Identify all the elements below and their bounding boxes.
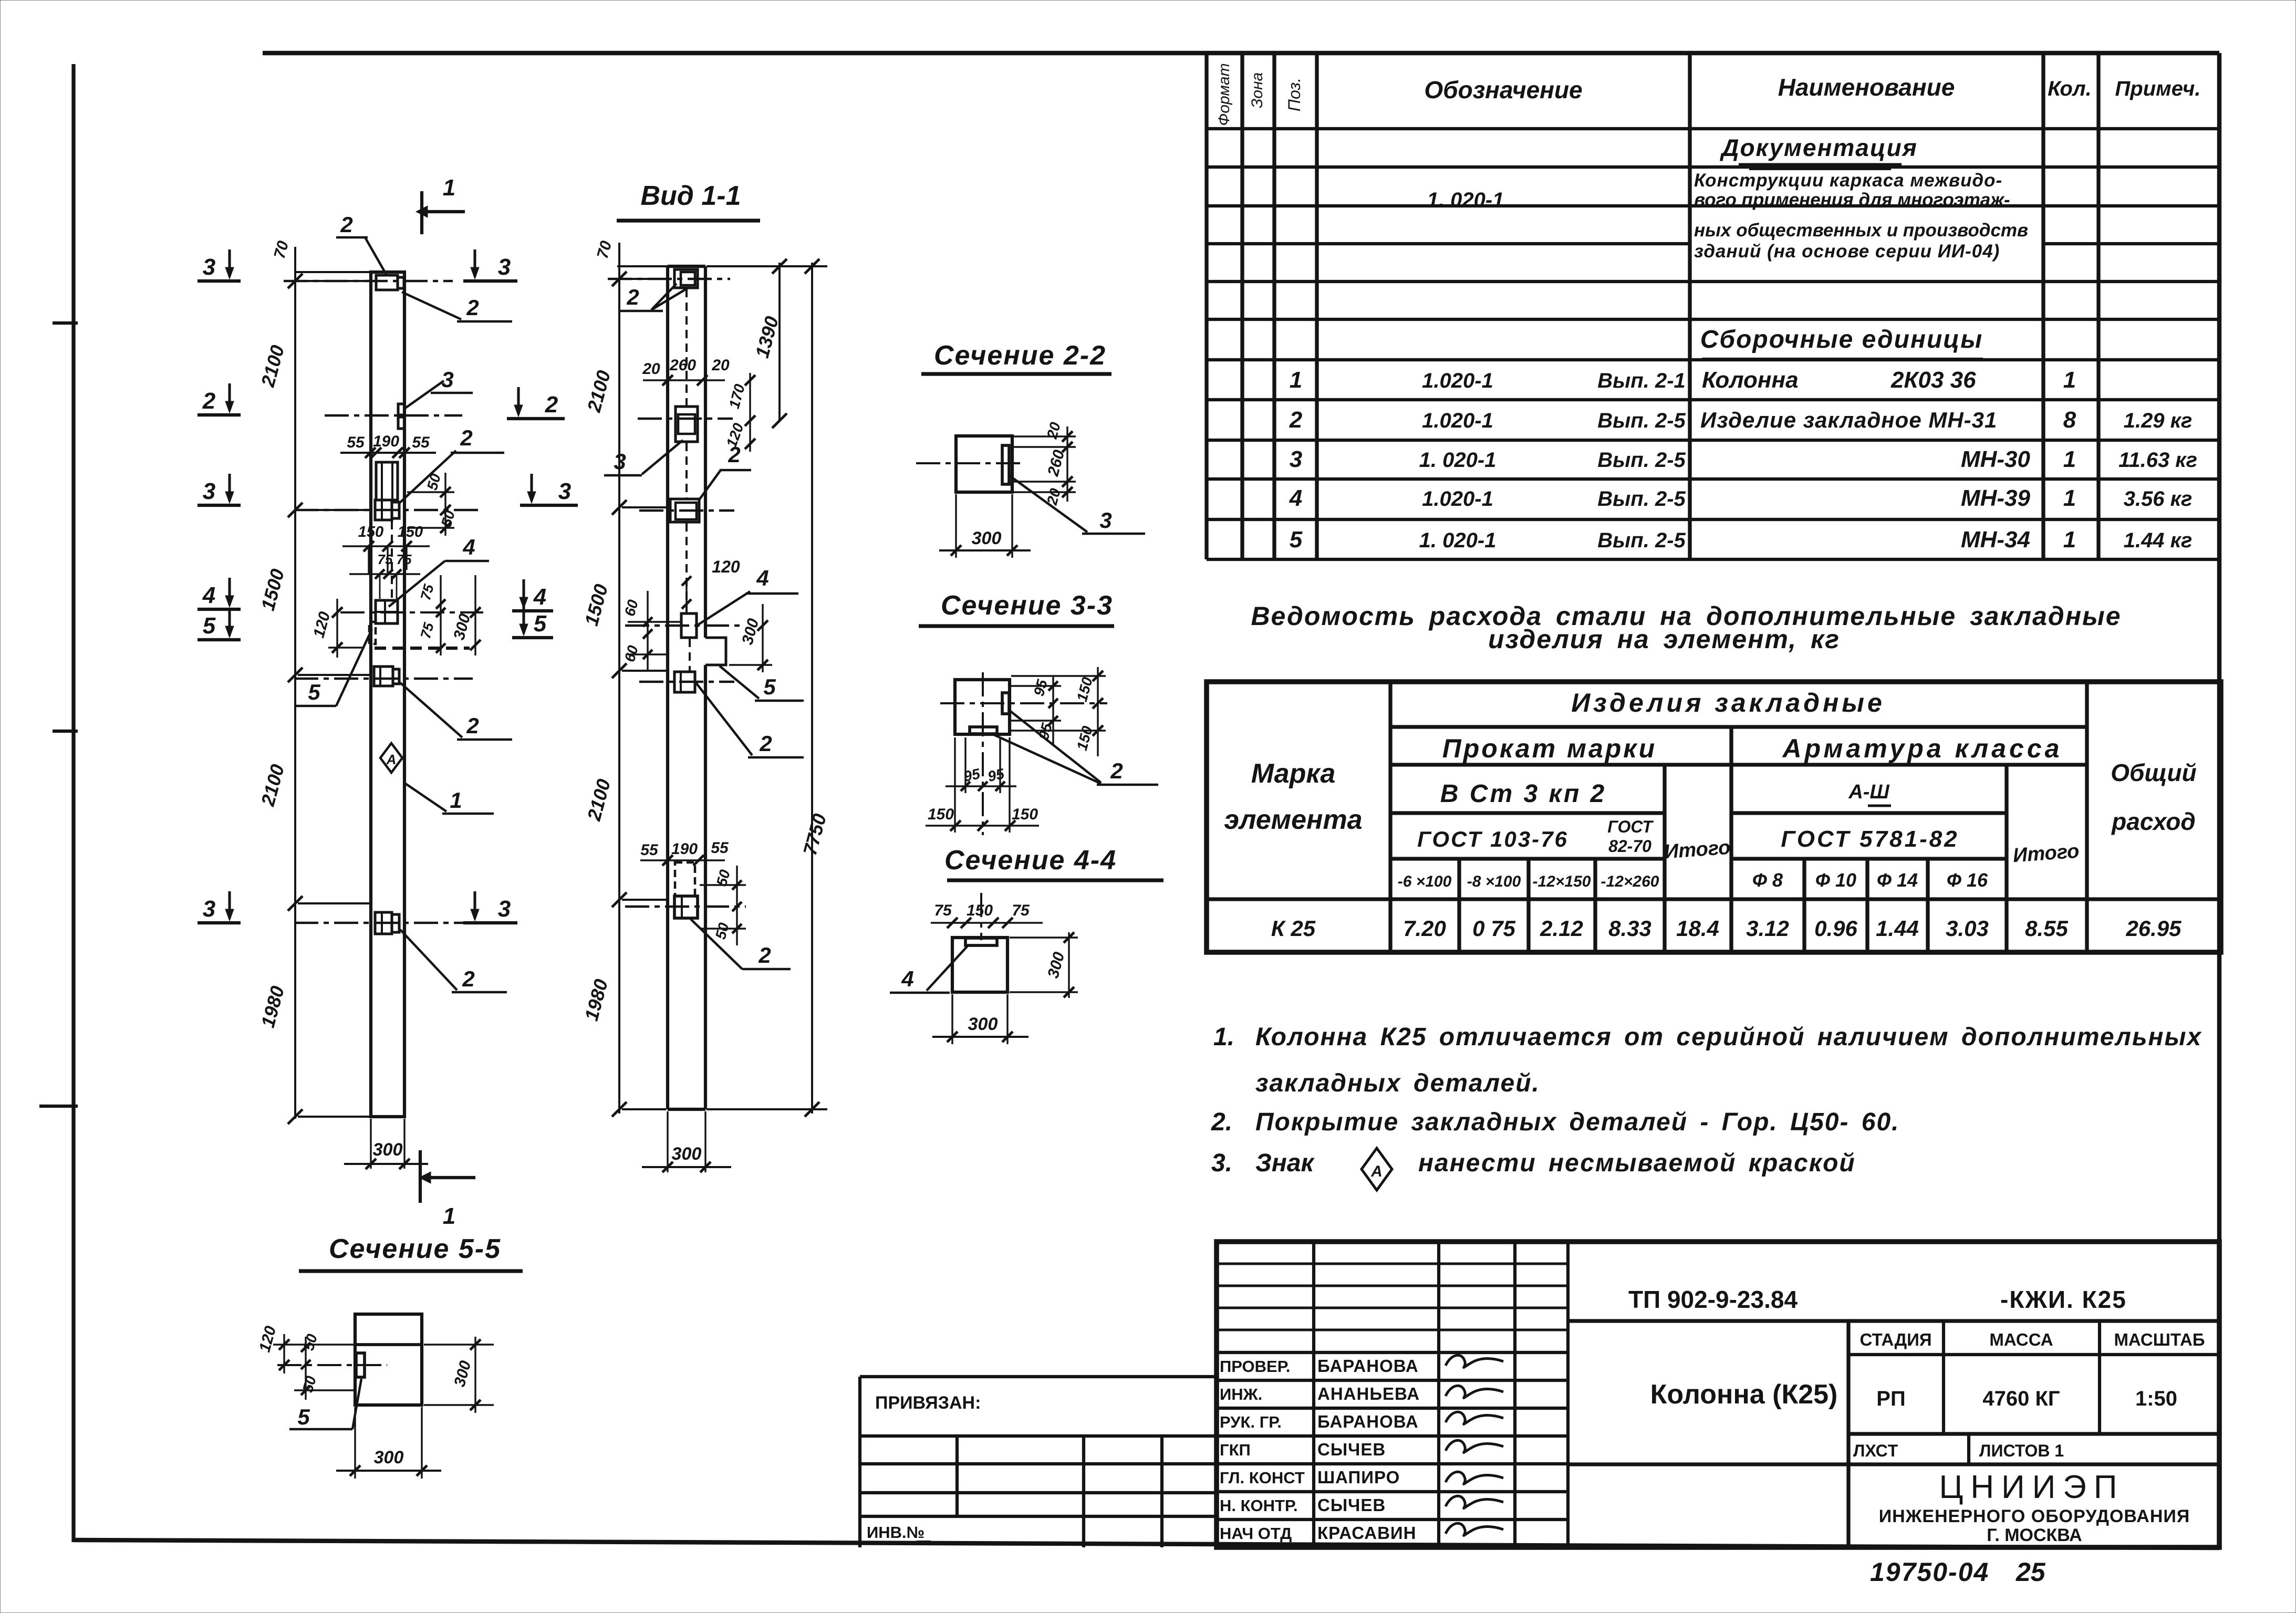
svg-text:0.96: 0.96 xyxy=(1814,916,1857,941)
svg-text:2: 2 xyxy=(466,295,479,320)
svg-text:1: 1 xyxy=(443,175,455,201)
svg-text:3: 3 xyxy=(614,449,626,474)
svg-text:Вып. 2-5: Вып. 2-5 xyxy=(1597,409,1686,432)
view2 dim 170 and 120 right xyxy=(723,373,755,452)
view1 section marks 3-3 top xyxy=(198,249,517,281)
svg-text:3: 3 xyxy=(1099,508,1111,533)
svg-text:Вып. 2-1: Вып. 2-1 xyxy=(1597,369,1686,392)
svg-text:МАССА: МАССА xyxy=(1989,1330,2053,1349)
svg-text:Вып. 2-5: Вып. 2-5 xyxy=(1597,449,1686,472)
signatures scribbles xyxy=(1446,1355,1503,1535)
svg-text:75: 75 xyxy=(1012,902,1030,919)
svg-text:1. 020-1: 1. 020-1 xyxy=(1419,529,1497,552)
organization name xyxy=(1879,1469,2190,1545)
svg-text:МН-34: МН-34 xyxy=(1961,527,2030,553)
svg-text:5: 5 xyxy=(203,613,216,639)
view1 mid embed plate 2 with section 3-3 line xyxy=(294,500,483,520)
svg-text:20: 20 xyxy=(642,360,660,378)
view1 hidden centre dash lines xyxy=(375,521,470,648)
section 4-4 top embed plate xyxy=(965,938,997,945)
spec table headers xyxy=(1215,63,2200,126)
svg-text:Г. МОСКВА: Г. МОСКВА xyxy=(1987,1525,2082,1545)
view1 dim 120 left xyxy=(310,599,342,658)
svg-text:3.: 3. xyxy=(1211,1149,1232,1177)
svg-text:2: 2 xyxy=(626,285,639,309)
section 5-5 dims 50 50 xyxy=(294,1332,356,1400)
steel table headers xyxy=(1224,688,2196,891)
svg-text:Кол.: Кол. xyxy=(2048,77,2092,100)
svg-text:1.29 кг: 1.29 кг xyxy=(2124,409,2193,432)
svg-text:1: 1 xyxy=(2063,527,2076,553)
inventory grid bottom left xyxy=(860,1436,1217,1547)
svg-text:300: 300 xyxy=(972,528,1002,548)
svg-text:МН-39: МН-39 xyxy=(1961,485,2031,511)
svg-text:КРАСАВИН: КРАСАВИН xyxy=(1317,1523,1417,1543)
section 5-5 title xyxy=(299,1234,523,1271)
view1 dim 75 75 vertical right xyxy=(418,575,445,655)
svg-text:190: 190 xyxy=(373,433,399,450)
view2 bottom dim 300 xyxy=(642,1111,731,1172)
svg-text:Ф 14: Ф 14 xyxy=(1877,869,1918,891)
svg-text:Сечение 4-4: Сечение 4-4 xyxy=(944,845,1117,876)
section 5-5 embed plate left xyxy=(356,1353,365,1377)
privyazan box xyxy=(860,1377,1217,1547)
svg-text:25: 25 xyxy=(2016,1557,2046,1587)
diamond quality mark in note 3 xyxy=(1362,1148,1392,1190)
svg-text:Изделие закладное МН-31: Изделие закладное МН-31 xyxy=(1700,408,1997,432)
view1 dim 50 50 right xyxy=(407,472,458,536)
section 3-3 label 2 xyxy=(993,710,1158,785)
svg-text:Сечение 5-5: Сечение 5-5 xyxy=(329,1234,501,1264)
section 2-2 dim 300 xyxy=(939,494,1031,558)
view2 embed 4 and section 4-4 line xyxy=(625,613,741,638)
view2 dim 60 60 left xyxy=(621,591,680,670)
view1 column body outline xyxy=(371,272,404,1117)
view1 label 2 top right xyxy=(402,292,512,321)
svg-text:РУК. ГР.: РУК. ГР. xyxy=(1220,1413,1282,1431)
svg-text:изделия на элемент, кг: изделия на элемент, кг xyxy=(1488,625,1840,654)
svg-text:1. 020-1: 1. 020-1 xyxy=(1419,449,1497,472)
view1 dim 75 75 xyxy=(349,551,420,599)
svg-text:5: 5 xyxy=(1290,527,1303,553)
spec data rows xyxy=(1289,367,2197,553)
svg-text:Ф 10: Ф 10 xyxy=(1815,869,1856,891)
view1 section marks 5-5 xyxy=(198,606,553,640)
view1 embed 5 hidden plate xyxy=(328,622,376,648)
section 3-3 dims 95 95 bottom xyxy=(946,737,1016,793)
svg-text:Колонна (К25): Колонна (К25) xyxy=(1650,1379,1838,1410)
section 3-3 bottom embed plate xyxy=(970,727,997,734)
svg-text:82-70: 82-70 xyxy=(1608,837,1651,856)
svg-text:Вид 1-1: Вид 1-1 xyxy=(640,181,741,211)
svg-text:300: 300 xyxy=(672,1144,702,1164)
svg-text:5: 5 xyxy=(297,1404,310,1429)
svg-text:2К03 36: 2К03 36 xyxy=(1890,367,1976,393)
svg-text:РП: РП xyxy=(1876,1387,1905,1410)
svg-text:НАЧ ОТД: НАЧ ОТД xyxy=(1220,1524,1292,1543)
svg-text:Сечение 2-2: Сечение 2-2 xyxy=(934,340,1106,371)
svg-text:2: 2 xyxy=(460,425,472,450)
svg-text:8.55: 8.55 xyxy=(2025,916,2068,941)
stage mass scale section xyxy=(1848,1321,2219,1547)
svg-text:СТАДИЯ: СТАДИЯ xyxy=(1859,1330,1931,1349)
view2 label 2 top xyxy=(618,284,688,311)
view1 label 4 leader xyxy=(389,535,489,607)
svg-text:Обозначение: Обозначение xyxy=(1424,76,1582,103)
steel table data row K25 xyxy=(1271,916,2181,941)
svg-text:ЦНИИЭП: ЦНИИЭП xyxy=(1939,1469,2125,1505)
view2 dim 300 right of console xyxy=(729,604,772,672)
view1 dim 150 150 xyxy=(342,524,430,574)
svg-text:300: 300 xyxy=(374,1448,404,1468)
svg-text:СЫЧЕВ: СЫЧЕВ xyxy=(1317,1495,1386,1515)
svg-text:3: 3 xyxy=(1290,446,1302,472)
svg-text:3: 3 xyxy=(498,254,511,280)
view1 section marks 2-2 xyxy=(198,383,565,419)
svg-text:20: 20 xyxy=(711,357,730,374)
svg-text:ГОСТ 103-76: ГОСТ 103-76 xyxy=(1417,827,1568,851)
view2 embed 3 plate xyxy=(638,407,733,442)
svg-text:4: 4 xyxy=(1289,485,1302,511)
section 3-3 dims 95 95 right xyxy=(1011,675,1061,746)
svg-text:4760 КГ: 4760 КГ xyxy=(1982,1387,2060,1410)
svg-text:55: 55 xyxy=(640,841,659,859)
svg-text:БАРАНОВА: БАРАНОВА xyxy=(1317,1356,1419,1376)
svg-text:МН-30: МН-30 xyxy=(1961,446,2031,472)
title block left signature grid xyxy=(1217,1242,1568,1547)
svg-text:Сечение 3-3: Сечение 3-3 xyxy=(941,590,1113,621)
svg-text:Колонна: Колонна xyxy=(1702,367,1799,393)
view1 top embed plate MN-31 xyxy=(284,275,453,290)
svg-text:ИНВ.№: ИНВ.№ xyxy=(867,1523,924,1542)
view1 embed 2 lower xyxy=(294,667,473,686)
svg-text:0 75: 0 75 xyxy=(1472,916,1515,941)
svg-text:150: 150 xyxy=(928,806,954,823)
svg-text:75: 75 xyxy=(934,902,952,919)
svg-text:1.: 1. xyxy=(1213,1023,1234,1051)
svg-text:Знак: Знак xyxy=(1255,1149,1315,1177)
view1 section marks 4-4 xyxy=(198,578,553,611)
view2 dim 50 upper right xyxy=(700,866,746,945)
svg-text:Колонна К25 отличается от: Колонна К25 отличается от серийной налич… xyxy=(1255,1023,2202,1051)
view2 label 2 for embed 2a xyxy=(699,442,751,501)
svg-text:4: 4 xyxy=(901,966,913,991)
title block project number row xyxy=(1568,1286,2219,1321)
section 4-4 title xyxy=(944,845,1163,880)
view1 label 2 lower xyxy=(400,683,512,740)
svg-text:120: 120 xyxy=(712,557,740,576)
view1 label 5 leader xyxy=(294,629,372,706)
spec row 1.020-1 documentation xyxy=(1427,170,2029,262)
svg-text:1: 1 xyxy=(1290,367,1302,393)
svg-text:2: 2 xyxy=(202,388,216,414)
svg-text:4: 4 xyxy=(533,584,546,610)
svg-text:ИНЖЕНЕРНОГО ОБОРУДОВАНИЯ: ИНЖЕНЕРНОГО ОБОРУДОВАНИЯ xyxy=(1879,1506,2190,1526)
svg-text:В Ст 3 кп 2: В Ст 3 кп 2 xyxy=(1440,780,1606,808)
view2 embed 2b plate xyxy=(639,672,734,692)
section 3-3 dims 150 150 right xyxy=(1011,667,1106,756)
view2 label 5 xyxy=(720,666,804,701)
svg-text:3: 3 xyxy=(203,896,215,922)
section 3-3 dims 150 150 bottom xyxy=(926,737,1039,832)
svg-text:Ф 16: Ф 16 xyxy=(1947,869,1988,891)
svg-text:Изделия закладные: Изделия закладные xyxy=(1571,688,1885,717)
view2 console step xyxy=(705,638,726,665)
svg-text:Конструкции каркаса межвидо-: Конструкции каркаса межвидо- xyxy=(1694,170,2002,191)
svg-text:300: 300 xyxy=(373,1140,403,1160)
view1 window opening 190 xyxy=(376,462,398,500)
svg-text:3.56 кг: 3.56 кг xyxy=(2124,487,2193,511)
view1 quality mark diamond A xyxy=(380,743,402,773)
svg-text:-КЖИ. К25: -КЖИ. К25 xyxy=(2000,1286,2127,1313)
section 4-4 dim 300 bottom xyxy=(932,994,1028,1044)
svg-text:1.44 кг: 1.44 кг xyxy=(2124,529,2193,552)
title block signature labels xyxy=(1220,1356,1420,1543)
svg-text:7.20: 7.20 xyxy=(1403,916,1446,941)
svg-text:19750-04: 19750-04 xyxy=(1870,1557,1989,1587)
svg-text:8.33: 8.33 xyxy=(1608,916,1651,941)
svg-text:Арматура класса: Арматура класса xyxy=(1782,734,2063,763)
svg-text:1.020-1: 1.020-1 xyxy=(1422,487,1493,511)
view1 bottom embed 2 xyxy=(294,912,473,934)
view2 label 2 for embed 2b xyxy=(696,683,804,757)
svg-text:190: 190 xyxy=(671,840,698,858)
svg-text:ЛИСТОВ 1: ЛИСТОВ 1 xyxy=(1979,1441,2064,1460)
view2 embed 2a plate xyxy=(639,499,734,522)
section 2-2 dims 20 260 20 xyxy=(1011,420,1076,507)
svg-text:Зона: Зона xyxy=(1249,72,1266,108)
title block drawing name xyxy=(1568,1379,2219,1464)
svg-text:Ф 8: Ф 8 xyxy=(1752,869,1783,891)
view1 bottom dim 300 xyxy=(344,1119,428,1169)
view2 hidden centre dash lines xyxy=(687,289,690,671)
view1 section 2-2 embed plate xyxy=(325,404,462,429)
svg-text:150: 150 xyxy=(1012,806,1038,823)
svg-text:А: А xyxy=(386,752,397,767)
view1 dim 300 vertical right xyxy=(450,575,481,655)
svg-text:3.03: 3.03 xyxy=(1946,916,1989,941)
section 5-5 dim 300 right xyxy=(424,1337,494,1413)
svg-text:1: 1 xyxy=(2063,485,2076,511)
svg-text:3: 3 xyxy=(203,478,215,504)
svg-text:2: 2 xyxy=(758,943,771,967)
svg-text:26.95: 26.95 xyxy=(2125,916,2181,941)
svg-text:4: 4 xyxy=(756,566,768,590)
svg-text:-12×150: -12×150 xyxy=(1533,873,1591,890)
steel consumption list title xyxy=(1251,601,2121,654)
view1 label 1 leader xyxy=(406,784,494,814)
svg-text:2: 2 xyxy=(1289,407,1303,433)
svg-text:1: 1 xyxy=(443,1203,455,1229)
view2 label 4 xyxy=(698,566,798,625)
view1 section mark 1 top xyxy=(416,175,465,234)
sheet number row xyxy=(1853,1434,2064,1464)
view1 embed 4 plate xyxy=(340,600,483,623)
specification table grid xyxy=(1207,53,2219,559)
section 3-3 square body xyxy=(940,672,1107,835)
svg-text:Вып. 2-5: Вып. 2-5 xyxy=(1597,487,1686,511)
svg-text:Итого: Итого xyxy=(1664,837,1731,863)
svg-text:Примеч.: Примеч. xyxy=(2115,77,2201,100)
svg-text:-6 ×100: -6 ×100 xyxy=(1398,873,1452,890)
svg-text:ТП 902-9-23.84: ТП 902-9-23.84 xyxy=(1628,1286,1798,1313)
view2 title Vid 1-1 xyxy=(617,181,760,221)
section 4-4 dims 75 150 75 xyxy=(931,893,1043,940)
svg-text:55: 55 xyxy=(347,434,365,451)
svg-text:элемента: элемента xyxy=(1224,805,1362,835)
section 4-4 square body xyxy=(952,938,1007,992)
svg-text:1.44: 1.44 xyxy=(1876,916,1919,941)
svg-text:Поз.: Поз. xyxy=(1285,78,1304,111)
svg-text:Вып. 2-5: Вып. 2-5 xyxy=(1597,529,1686,552)
svg-text:расход: расход xyxy=(2111,808,2196,835)
svg-text:1: 1 xyxy=(450,788,462,813)
svg-text:ГОСТ: ГОСТ xyxy=(1607,817,1654,836)
svg-text:11.63 кг: 11.63 кг xyxy=(2118,449,2197,472)
section 5-5 label 5 xyxy=(289,1379,361,1429)
view2 dim 50 lower xyxy=(712,921,732,941)
view2 hidden slot above bottom embed xyxy=(675,862,695,896)
section 3-3 right embed plate xyxy=(1002,693,1009,714)
svg-text:ных общественных и производств: ных общественных и производств xyxy=(1694,220,2028,241)
svg-text:Марка: Марка xyxy=(1251,758,1336,789)
svg-text:2: 2 xyxy=(340,212,352,237)
svg-text:1.020-1: 1.020-1 xyxy=(1422,369,1493,392)
section 5-5 square body xyxy=(277,1314,422,1405)
view1 label 3 for embed xyxy=(404,367,473,409)
svg-text:300: 300 xyxy=(968,1014,998,1034)
svg-text:ГОСТ 5781-82: ГОСТ 5781-82 xyxy=(1781,826,1959,852)
svg-text:А-Ш: А-Ш xyxy=(1848,781,1889,803)
svg-text:А: А xyxy=(1370,1163,1383,1180)
view2 top embed plate xyxy=(608,269,730,288)
section 2-2 square body xyxy=(916,436,1022,492)
view1 section marks 3-3 mid xyxy=(198,474,578,505)
section 2-2 label 3 xyxy=(1009,475,1145,534)
svg-text:8: 8 xyxy=(2063,407,2076,433)
spec row Сборочные единицы xyxy=(1700,326,1983,359)
svg-text:К 25: К 25 xyxy=(1271,916,1316,941)
view2 label 2 bottom xyxy=(691,919,791,969)
svg-text:Наименование: Наименование xyxy=(1778,74,1955,101)
view2 column body outline xyxy=(668,266,705,1109)
svg-text:150: 150 xyxy=(967,902,993,919)
svg-text:Сборочные единицы: Сборочные единицы xyxy=(1700,326,1983,353)
view2 dim 120 above embed 4 xyxy=(682,557,740,612)
svg-text:Формат: Формат xyxy=(1215,63,1233,126)
svg-text:2: 2 xyxy=(545,392,558,418)
section 2-2 embed plate xyxy=(1002,445,1009,484)
svg-text:вого применения для многоэтаж-: вого применения для многоэтаж- xyxy=(1694,190,2010,210)
svg-text:Общий: Общий xyxy=(2111,759,2196,786)
svg-text:СЫЧЕВ: СЫЧЕВ xyxy=(1317,1440,1386,1459)
svg-text:1:50: 1:50 xyxy=(2135,1387,2177,1410)
view1 dim 55 190 55 xyxy=(340,433,436,462)
view2 bottom embed 2c xyxy=(625,896,746,918)
svg-text:нанести несмываемой краской: нанести несмываемой краской xyxy=(1418,1149,1856,1177)
svg-text:Н. КОНТР.: Н. КОНТР. xyxy=(1220,1496,1298,1515)
svg-text:ГЛ. КОНСТ: ГЛ. КОНСТ xyxy=(1220,1469,1305,1487)
svg-text:АНАНЬЕВА: АНАНЬЕВА xyxy=(1317,1384,1420,1403)
svg-text:2.: 2. xyxy=(1211,1108,1232,1136)
title block outline xyxy=(1217,1242,2219,1547)
svg-text:55: 55 xyxy=(711,839,729,857)
view2 right dim line 1390 xyxy=(707,259,827,428)
view1 section mark 1 bottom xyxy=(419,1150,475,1229)
svg-text:1: 1 xyxy=(2063,446,2076,472)
svg-text:3: 3 xyxy=(498,896,511,922)
svg-text:150: 150 xyxy=(398,524,423,540)
svg-text:2: 2 xyxy=(466,713,479,738)
section 5-5 dim 300 bottom xyxy=(336,1407,441,1479)
svg-text:ШАПИРО: ШАПИРО xyxy=(1317,1468,1400,1487)
view1 label 2 mid xyxy=(399,425,504,503)
svg-text:Покрытие закладных деталей -: Покрытие закладных деталей - Гор. Ц50- 6… xyxy=(1255,1108,1900,1136)
svg-text:150: 150 xyxy=(358,524,383,540)
view2 dimension chain line xyxy=(580,239,670,1117)
section 5-5 dim 120 xyxy=(256,1324,355,1373)
view2 right dim line 7750 xyxy=(707,259,830,1117)
svg-text:75: 75 xyxy=(378,551,393,567)
svg-text:2: 2 xyxy=(728,442,740,467)
section 4-4 label 4 xyxy=(890,945,968,993)
svg-text:ПРИВЯЗАН:: ПРИВЯЗАН: xyxy=(875,1393,981,1413)
svg-text:3.12: 3.12 xyxy=(1746,916,1789,941)
steel consumption table grid xyxy=(1207,682,2221,952)
svg-text:3: 3 xyxy=(441,367,453,392)
svg-text:260: 260 xyxy=(669,357,696,374)
svg-text:2: 2 xyxy=(462,966,474,991)
view2 dim 20 260 20 xyxy=(642,357,730,386)
view1 label 2 top left xyxy=(336,212,386,274)
svg-text:3: 3 xyxy=(558,478,571,504)
svg-text:закладных деталей.: закладных деталей. xyxy=(1255,1069,1540,1097)
svg-text:ГКП: ГКП xyxy=(1220,1441,1251,1459)
section 4-4 dim 300 right xyxy=(1010,932,1078,998)
svg-text:зданий (на основе серии ИИ-04): зданий (на основе серии ИИ-04) xyxy=(1694,241,2000,262)
svg-text:4: 4 xyxy=(462,535,475,559)
view2 dim 55 190 55 lower xyxy=(640,839,729,866)
svg-text:1. 020-1: 1. 020-1 xyxy=(1427,189,1504,212)
svg-text:БАРАНОВА: БАРАНОВА xyxy=(1317,1412,1419,1431)
view1 dimension chain line xyxy=(257,239,373,1124)
svg-text:Итого: Итого xyxy=(2012,840,2080,867)
section 2-2 title xyxy=(921,340,1111,374)
view2 label 3 xyxy=(604,440,683,475)
svg-text:3: 3 xyxy=(203,254,215,280)
svg-text:2: 2 xyxy=(1110,758,1123,783)
section 3-3 title xyxy=(919,590,1114,626)
svg-text:1.020-1: 1.020-1 xyxy=(1422,409,1493,432)
svg-text:МАСШТАБ: МАСШТАБ xyxy=(2114,1330,2205,1349)
svg-text:Документация: Документация xyxy=(1719,134,1918,161)
view1 label 2 bottom xyxy=(400,930,507,992)
svg-text:75: 75 xyxy=(397,551,412,567)
svg-text:5: 5 xyxy=(763,674,776,699)
spec row Документация xyxy=(1719,134,1918,169)
svg-text:ЛХСT: ЛХСT xyxy=(1853,1441,1898,1460)
svg-text:Прокат марки: Прокат марки xyxy=(1442,734,1657,763)
svg-text:1: 1 xyxy=(2063,367,2076,393)
document number bottom xyxy=(1870,1557,2046,1587)
svg-text:2: 2 xyxy=(759,731,772,756)
svg-text:18.4: 18.4 xyxy=(1676,916,1719,941)
view1 section marks 3-3 bottom xyxy=(198,891,517,923)
svg-text:ПРОВЕР.: ПРОВЕР. xyxy=(1220,1357,1290,1376)
svg-text:55: 55 xyxy=(412,434,430,451)
svg-text:4: 4 xyxy=(202,582,215,608)
svg-text:-8 ×100: -8 ×100 xyxy=(1467,873,1521,890)
